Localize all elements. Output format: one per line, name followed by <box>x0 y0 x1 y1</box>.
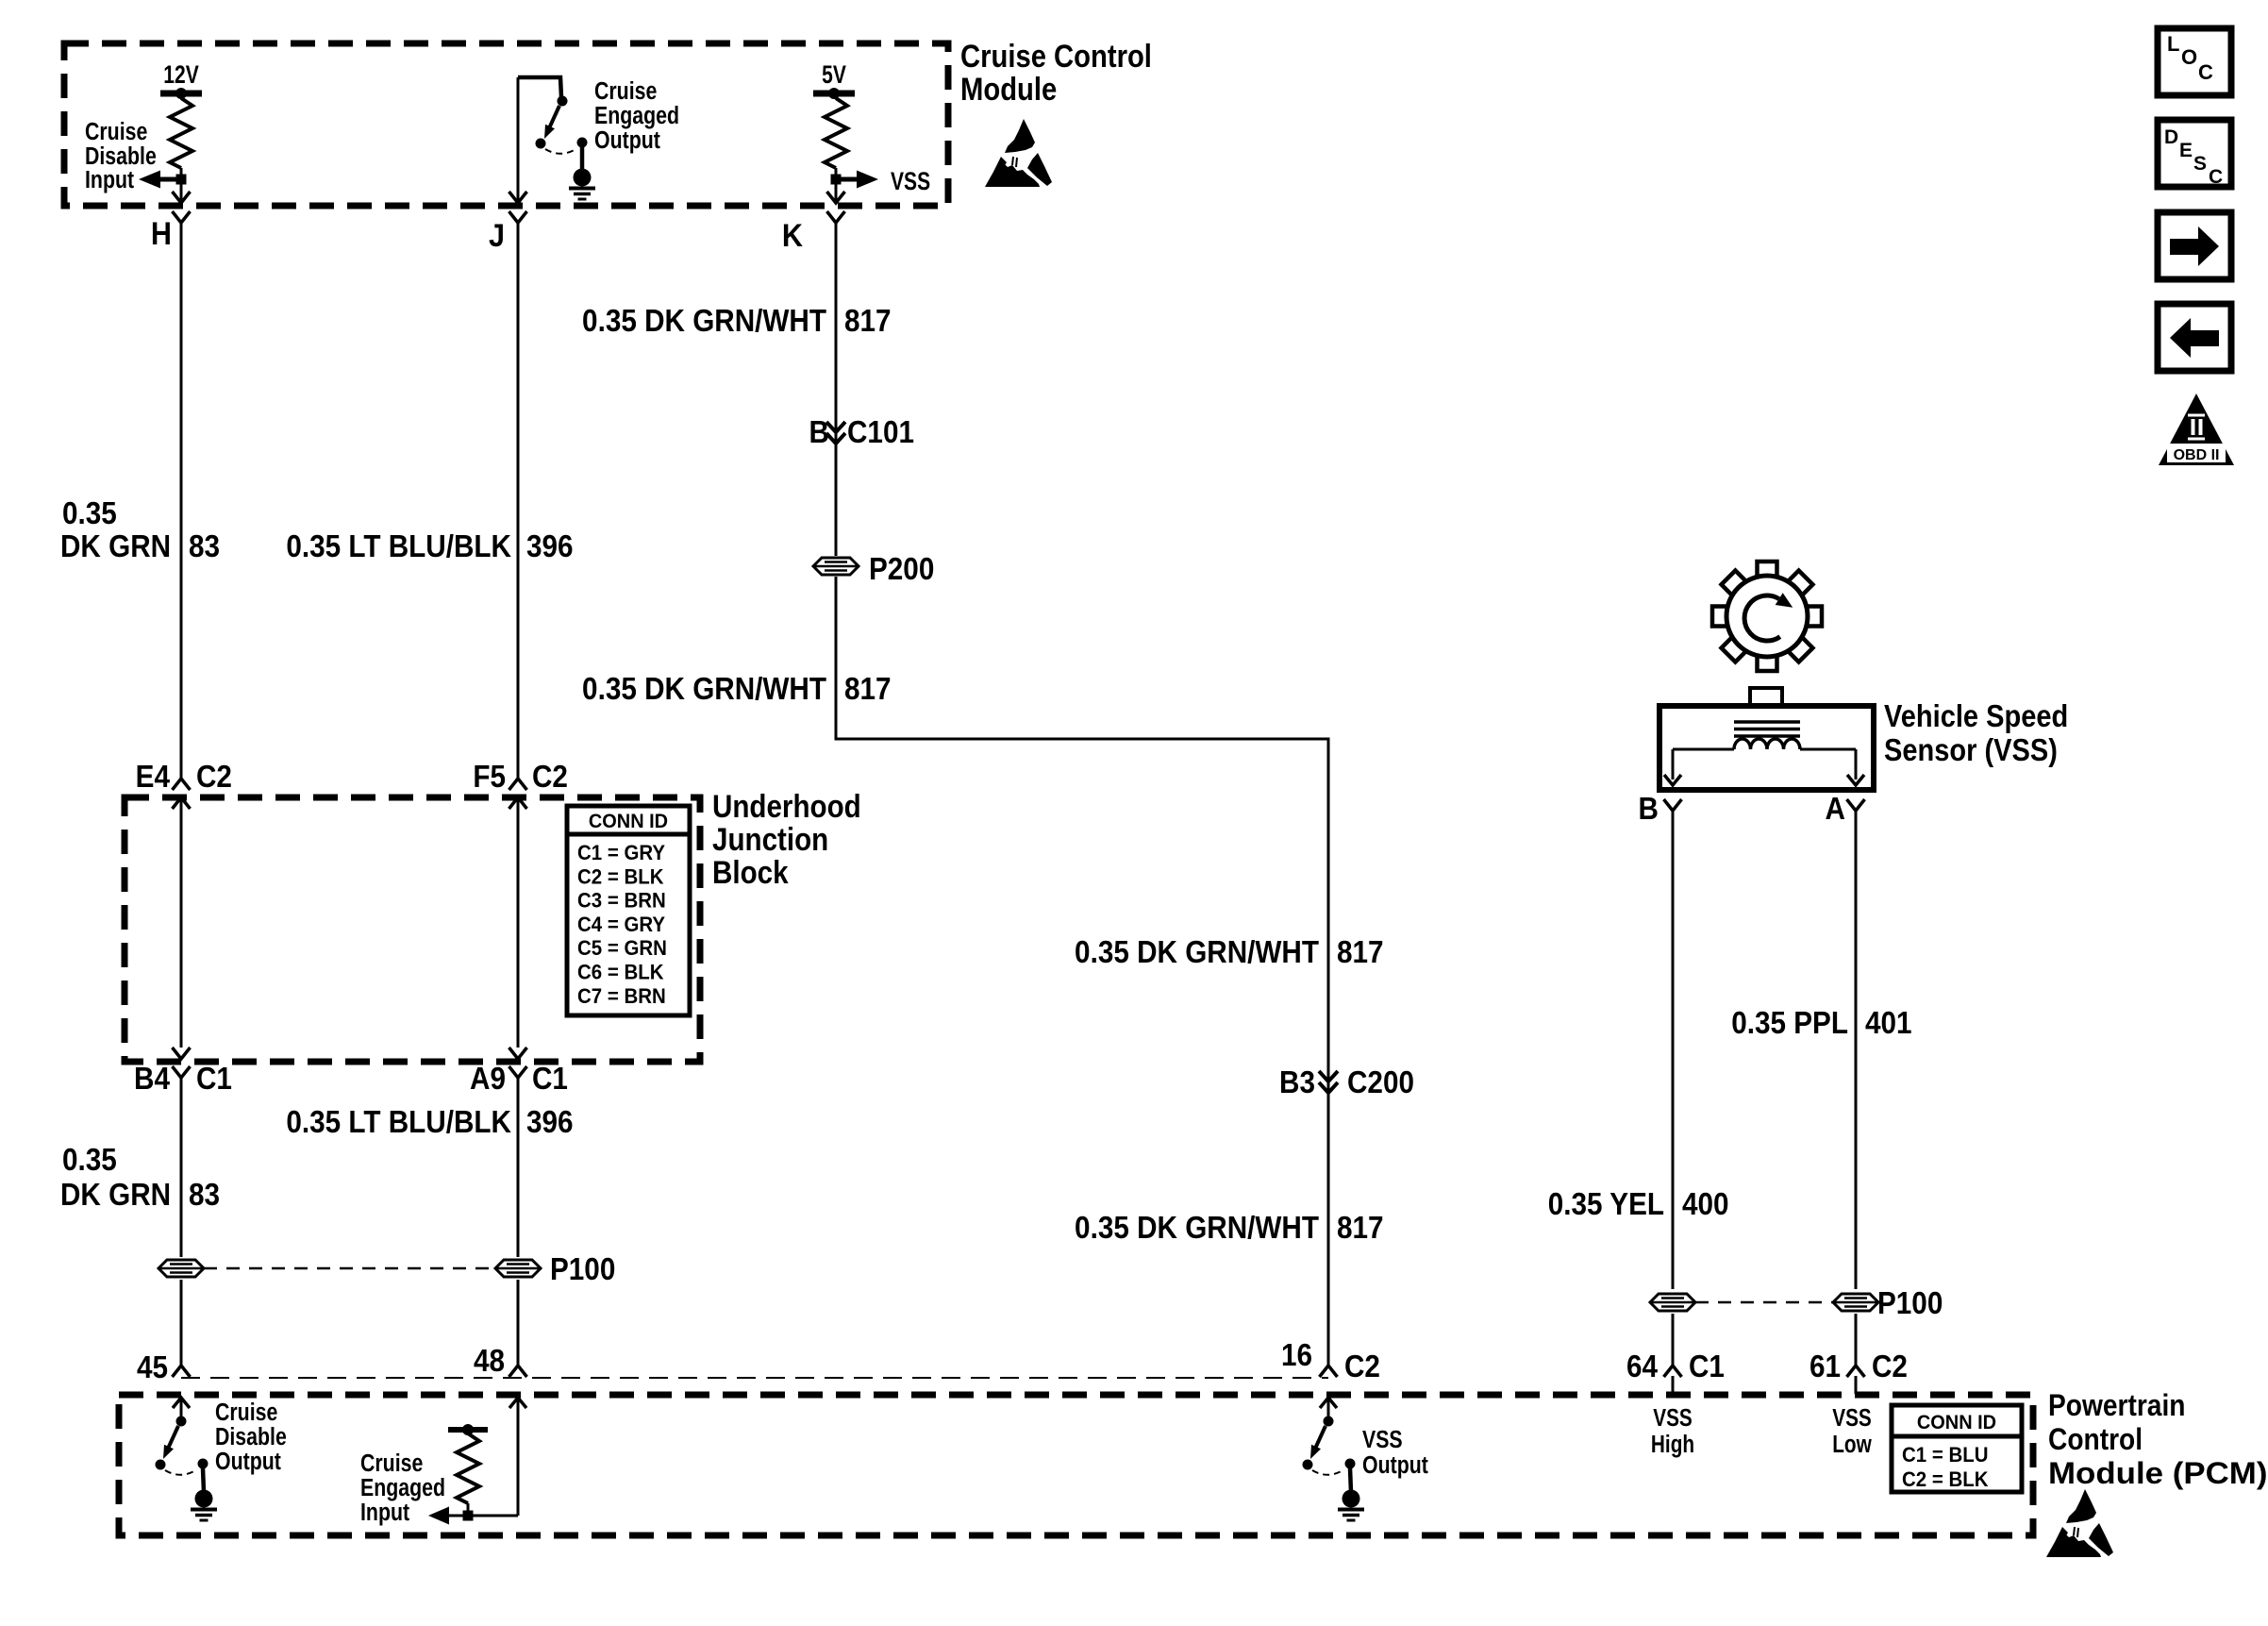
svg-text:O: O <box>2181 45 2197 69</box>
svg-text:C1: C1 <box>532 1062 568 1097</box>
svg-text:C6 = BLK: C6 = BLK <box>577 961 664 984</box>
svg-text:5V: 5V <box>822 61 846 90</box>
svg-text:OBD II: OBD II <box>2174 447 2220 463</box>
svg-text:Module (PCM): Module (PCM) <box>2048 1457 2267 1490</box>
svg-text:64: 64 <box>1626 1349 1659 1384</box>
svg-text:Block: Block <box>712 854 789 890</box>
svg-text:C7 = BRN: C7 = BRN <box>577 984 666 1008</box>
svg-text:817: 817 <box>844 304 892 339</box>
svg-text:Powertrain: Powertrain <box>2048 1389 2185 1422</box>
svg-text:DK GRN: DK GRN <box>60 1178 171 1213</box>
svg-text:L: L <box>2167 32 2179 56</box>
svg-text:0.35 DK GRN/WHT: 0.35 DK GRN/WHT <box>582 672 826 707</box>
svg-text:Input: Input <box>360 1499 409 1527</box>
svg-text:VSS: VSS <box>1832 1404 1872 1432</box>
svg-text:Output: Output <box>215 1448 281 1476</box>
svg-text:C: C <box>2209 166 2223 188</box>
svg-text:Junction: Junction <box>712 821 828 857</box>
svg-text:0.35 DK GRN/WHT: 0.35 DK GRN/WHT <box>582 304 826 339</box>
svg-text:12V: 12V <box>163 61 198 90</box>
svg-text:C2: C2 <box>1872 1349 1908 1384</box>
svg-text:61: 61 <box>1809 1349 1841 1384</box>
svg-text:A9: A9 <box>470 1062 506 1097</box>
svg-text:VSS: VSS <box>1362 1426 1403 1454</box>
svg-text:45: 45 <box>137 1350 168 1385</box>
svg-text:396: 396 <box>526 1105 574 1140</box>
svg-text:0.35: 0.35 <box>62 496 117 531</box>
svg-text:Module: Module <box>960 71 1057 108</box>
svg-text:DK GRN: DK GRN <box>60 529 171 564</box>
svg-text:C5 = GRN: C5 = GRN <box>577 937 667 961</box>
svg-text:Input: Input <box>85 166 134 194</box>
svg-text:Cruise Control: Cruise Control <box>960 38 1152 75</box>
svg-text:D: D <box>2164 126 2178 148</box>
svg-text:C200: C200 <box>1347 1065 1414 1100</box>
svg-text:E: E <box>2179 140 2193 161</box>
svg-text:C4 = GRY: C4 = GRY <box>577 913 665 936</box>
svg-text:Output: Output <box>594 126 660 155</box>
svg-text:C101: C101 <box>847 415 914 450</box>
svg-text:C1: C1 <box>1689 1349 1725 1384</box>
svg-text:48: 48 <box>474 1344 505 1379</box>
svg-text:H: H <box>151 216 172 252</box>
svg-text:83: 83 <box>189 529 220 564</box>
svg-text:Low: Low <box>1832 1431 1872 1458</box>
svg-text:B4: B4 <box>134 1062 170 1097</box>
svg-text:C2: C2 <box>532 760 568 795</box>
svg-text:Underhood: Underhood <box>712 788 861 824</box>
svg-text:0.35 LT BLU/BLK: 0.35 LT BLU/BLK <box>286 1105 511 1140</box>
svg-text:High: High <box>1651 1431 1694 1458</box>
svg-text:Vehicle Speed: Vehicle Speed <box>1884 698 2068 733</box>
svg-text:401: 401 <box>1865 1006 1912 1041</box>
svg-text:16: 16 <box>1281 1338 1312 1373</box>
svg-text:0.35 YEL: 0.35 YEL <box>1548 1187 1664 1222</box>
svg-text:0.35 DK GRN/WHT: 0.35 DK GRN/WHT <box>1075 1211 1319 1246</box>
svg-text:P100: P100 <box>1877 1286 1943 1321</box>
svg-text:F5: F5 <box>473 760 506 795</box>
svg-text:817: 817 <box>1337 1211 1384 1246</box>
svg-text:B: B <box>1639 792 1659 827</box>
svg-text:C2: C2 <box>196 760 232 795</box>
svg-text:C1 = BLU: C1 = BLU <box>1902 1443 1988 1467</box>
svg-text:0.35: 0.35 <box>62 1143 117 1178</box>
svg-text:CONN ID: CONN ID <box>589 811 668 833</box>
svg-text:VSS: VSS <box>891 168 930 196</box>
svg-text:Control: Control <box>2048 1423 2143 1456</box>
svg-text:0.35 DK GRN/WHT: 0.35 DK GRN/WHT <box>1075 935 1319 970</box>
svg-text:K: K <box>782 218 804 254</box>
svg-text:C2 = BLK: C2 = BLK <box>577 865 664 889</box>
svg-text:P100: P100 <box>550 1252 615 1287</box>
svg-text:S: S <box>2193 153 2207 175</box>
svg-text:CONN ID: CONN ID <box>1917 1412 1996 1434</box>
svg-text:C2 = BLK: C2 = BLK <box>1902 1467 1989 1491</box>
svg-text:Output: Output <box>1362 1451 1428 1480</box>
svg-text:C1 = GRY: C1 = GRY <box>577 841 665 864</box>
svg-text:C3 = BRN: C3 = BRN <box>577 889 666 913</box>
svg-text:C2: C2 <box>1344 1349 1380 1384</box>
svg-text:396: 396 <box>526 529 574 564</box>
svg-text:C: C <box>2198 60 2213 84</box>
svg-text:J: J <box>489 218 505 254</box>
svg-text:B: B <box>809 415 829 450</box>
svg-text:817: 817 <box>844 672 892 707</box>
svg-text:817: 817 <box>1337 935 1384 970</box>
svg-text:P200: P200 <box>869 552 934 587</box>
svg-text:0.35 PPL: 0.35 PPL <box>1731 1006 1848 1041</box>
svg-text:E4: E4 <box>136 760 171 795</box>
svg-text:A: A <box>1826 792 1845 827</box>
svg-text:0.35 LT BLU/BLK: 0.35 LT BLU/BLK <box>286 529 511 564</box>
svg-text:VSS: VSS <box>1653 1404 1693 1432</box>
svg-text:B3: B3 <box>1279 1065 1315 1100</box>
svg-text:400: 400 <box>1682 1187 1729 1222</box>
svg-text:C1: C1 <box>196 1062 232 1097</box>
svg-text:Sensor (VSS): Sensor (VSS) <box>1884 732 2058 767</box>
svg-text:83: 83 <box>189 1178 220 1213</box>
